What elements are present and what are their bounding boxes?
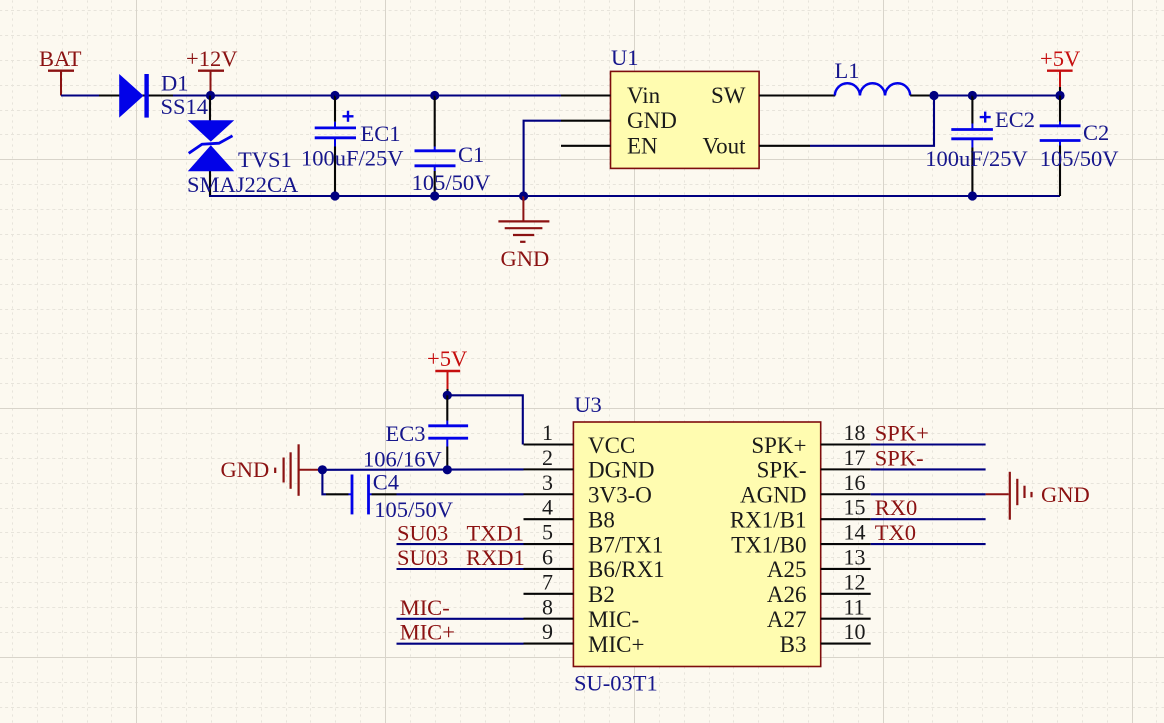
port BAT <box>39 46 82 96</box>
svg-text:VCC: VCC <box>588 433 635 458</box>
wire bottom rail EC1 to C1 <box>335 195 435 197</box>
svg-text:16: 16 <box>844 470 866 495</box>
svg-text:U3: U3 <box>574 392 602 417</box>
U3 pin 16 <box>740 470 871 508</box>
wire top rail EC1 to C1 <box>335 94 435 96</box>
U3 pin 6 <box>524 545 665 583</box>
svg-text:2: 2 <box>542 445 553 470</box>
capacitor EC1 100uF/25V <box>301 96 404 197</box>
svg-text:GND: GND <box>1041 482 1090 507</box>
svg-text:B3: B3 <box>780 632 807 657</box>
inductor L1 <box>835 58 911 96</box>
wire bottom rail TVS to EC1 <box>209 195 335 197</box>
U1 pin Vout <box>702 133 810 158</box>
label TX0 with wire pin14 <box>871 520 986 545</box>
svg-text:RX1/B1: RX1/B1 <box>730 507 807 532</box>
U1 pin Vin <box>561 83 661 108</box>
svg-text:SPK+: SPK+ <box>751 433 806 458</box>
svg-text:105/50V: 105/50V <box>412 170 491 195</box>
node GND junction <box>519 191 528 200</box>
svg-text:B8: B8 <box>588 507 615 532</box>
svg-text:GND: GND <box>501 246 550 271</box>
svg-text:D1: D1 <box>161 70 189 95</box>
node C1 bottom <box>430 191 439 200</box>
op-amp U1 regulator box <box>611 45 760 168</box>
node EC2 bottom <box>968 191 977 200</box>
node L1 out <box>929 91 938 100</box>
U3 pin 7 <box>524 569 615 607</box>
capacitor C2 105/50V <box>1040 96 1119 197</box>
svg-text:C2: C2 <box>1083 120 1109 145</box>
svg-text:TVS1: TVS1 <box>238 147 292 172</box>
capacitor EC2 100uF/25V <box>925 96 1035 197</box>
svg-text:MIC+: MIC+ <box>400 620 455 645</box>
label MIC- with wire to pin8 <box>397 595 524 620</box>
svg-text:SPK+: SPK+ <box>875 421 929 446</box>
svg-text:DGND: DGND <box>588 458 654 483</box>
svg-text:EC3: EC3 <box>386 421 426 446</box>
node EC3 bottom <box>443 465 452 474</box>
U3 pin 9 <box>524 619 645 657</box>
svg-text:B7/TX1: B7/TX1 <box>588 532 663 557</box>
svg-text:MIC-: MIC- <box>588 607 639 632</box>
U3 pin 5 <box>524 520 664 558</box>
node GND / C4 branch <box>318 465 327 474</box>
node +5V <box>1055 91 1064 100</box>
svg-text:+12V: +12V <box>186 46 237 71</box>
svg-text:AGND: AGND <box>740 483 806 508</box>
U3 pin 2 <box>524 445 655 483</box>
svg-text:C4: C4 <box>373 469 399 494</box>
svg-text:106/16V: 106/16V <box>363 446 442 471</box>
wire bottom rail EC2 to C2 <box>972 195 1060 197</box>
svg-text:EC1: EC1 <box>361 121 401 146</box>
wire Vout feedback <box>810 96 934 146</box>
U3 pin 12 <box>767 569 871 607</box>
svg-text:GND: GND <box>221 457 270 482</box>
U3 pin 3 <box>524 470 652 508</box>
power port +5V (bottom) <box>427 346 467 395</box>
svg-text:3V3-O: 3V3-O <box>588 483 652 508</box>
wire C4 to U3 pin3 <box>397 493 524 495</box>
wire BAT to D1 <box>61 94 99 96</box>
node +5V / EC3 top <box>443 391 452 400</box>
power port +5V (top) <box>1040 46 1080 96</box>
svg-text:15: 15 <box>844 495 866 520</box>
svg-text:SPK-: SPK- <box>757 458 807 483</box>
wire U1 GND pin to ground rail <box>524 121 561 196</box>
capacitor C4 105/50V <box>322 469 453 522</box>
wire GND node to U3 pin2 <box>322 468 523 470</box>
svg-text:1: 1 <box>542 420 553 445</box>
svg-text:A26: A26 <box>767 582 807 607</box>
U3 pin 17 <box>757 445 871 483</box>
label MIC+ with wire to pin9 <box>397 620 524 645</box>
svg-text:TX0: TX0 <box>875 520 916 545</box>
label RX0 with wire pin15 <box>871 495 986 520</box>
wire +12V node to EC1 node <box>211 94 336 96</box>
svg-text:7: 7 <box>542 569 553 594</box>
wire +5V node to U3 pin1 <box>447 395 523 444</box>
label SU03_RXD1 with wire to pin6 <box>397 545 525 570</box>
svg-text:3: 3 <box>542 470 553 495</box>
svg-text:SMAJ22CA: SMAJ22CA <box>187 172 299 197</box>
svg-text:U1: U1 <box>611 45 639 70</box>
U1 pin SW <box>711 83 835 108</box>
svg-text:B2: B2 <box>588 582 615 607</box>
svg-text:SW: SW <box>711 83 746 108</box>
U3 pin 15 <box>730 495 871 533</box>
node EC2 top <box>968 91 977 100</box>
U3 pin 18 <box>751 420 870 458</box>
label SPK+ with wire pin18 <box>871 421 986 446</box>
wire bottom rail GND to EC2 <box>524 195 973 197</box>
svg-text:14: 14 <box>844 520 866 545</box>
svg-text:SPK-: SPK- <box>875 445 924 470</box>
wire top rail EC2 to +5V/C2 <box>972 94 1060 96</box>
svg-text:100uF/25V: 100uF/25V <box>925 146 1028 171</box>
ground GND (right of U3) <box>986 472 1090 520</box>
svg-text:SS14: SS14 <box>161 94 209 119</box>
wire bottom rail C1 to GND node <box>435 195 524 197</box>
svg-text:GND: GND <box>627 108 677 133</box>
capacitor C1 105/50V <box>412 96 491 197</box>
wire pin16 to GND <box>871 493 986 495</box>
U1 pin EN <box>561 133 658 158</box>
svg-text:MIC-: MIC- <box>400 595 450 620</box>
svg-text:10: 10 <box>844 619 866 644</box>
svg-text:12: 12 <box>844 569 866 594</box>
svg-text:6: 6 <box>542 545 553 570</box>
svg-text:100uF/25V: 100uF/25V <box>301 146 404 171</box>
U3 pin 10 <box>780 619 871 657</box>
label SU03_TXD1 with wire to pin5 <box>397 520 525 545</box>
svg-text:A25: A25 <box>767 557 807 582</box>
U3 pin 8 <box>524 594 640 632</box>
svg-text:+5V: +5V <box>1040 46 1080 71</box>
ground GND (left of U3) <box>221 444 323 496</box>
svg-text:105/50V: 105/50V <box>1040 146 1119 171</box>
capacitor EC3 106/16V <box>363 395 468 471</box>
svg-text:5: 5 <box>542 520 553 545</box>
wire top rail C1 to U1 Vin <box>435 94 561 96</box>
U3 pin 4 <box>524 495 615 533</box>
svg-text:RX0: RX0 <box>875 495 918 520</box>
svg-text:A27: A27 <box>767 607 807 632</box>
U3 pin 1 <box>524 420 636 458</box>
svg-text:9: 9 <box>542 619 553 644</box>
wire top rail L1 to EC2 <box>934 94 972 96</box>
svg-text:18: 18 <box>844 420 866 445</box>
svg-text:Vout: Vout <box>702 133 746 158</box>
svg-text:EN: EN <box>627 133 658 158</box>
svg-text:B6/RX1: B6/RX1 <box>588 557 665 582</box>
IC U3 SU-03T1 box <box>573 392 820 696</box>
svg-text:L1: L1 <box>835 58 860 83</box>
ground GND (top circuit) <box>498 196 549 271</box>
svg-text:TX1/B0: TX1/B0 <box>731 532 806 557</box>
svg-text:4: 4 <box>542 495 553 520</box>
svg-text:105/50V: 105/50V <box>374 497 453 522</box>
svg-text:C1: C1 <box>458 142 484 167</box>
svg-text:+5V: +5V <box>427 346 467 371</box>
wire L1 to SW node <box>910 94 934 96</box>
power port +12V <box>186 46 237 96</box>
node +12V junction <box>206 91 215 100</box>
wire D1 to +12V node <box>173 94 211 96</box>
label SPK- with wire pin17 <box>871 445 986 470</box>
svg-text:EC2: EC2 <box>995 107 1035 132</box>
svg-text:8: 8 <box>542 594 553 619</box>
svg-text:Vin: Vin <box>627 83 661 108</box>
node EC1 bottom <box>330 191 339 200</box>
svg-text:13: 13 <box>844 545 866 570</box>
U1 pin GND <box>561 108 677 133</box>
svg-text:11: 11 <box>844 594 865 619</box>
U3 pin 14 <box>731 520 871 558</box>
node C1 top <box>430 91 439 100</box>
node EC1 top <box>330 91 339 100</box>
U3 pin 11 <box>767 594 871 632</box>
svg-text:17: 17 <box>844 445 866 470</box>
svg-text:BAT: BAT <box>39 46 82 71</box>
svg-text:MIC+: MIC+ <box>588 632 644 657</box>
U3 pin 13 <box>767 545 871 583</box>
diode D1 SS14 <box>99 70 208 119</box>
svg-text:SU-03T1: SU-03T1 <box>574 671 658 696</box>
TVS diode TVS1 SMAJ22CA <box>187 96 299 197</box>
